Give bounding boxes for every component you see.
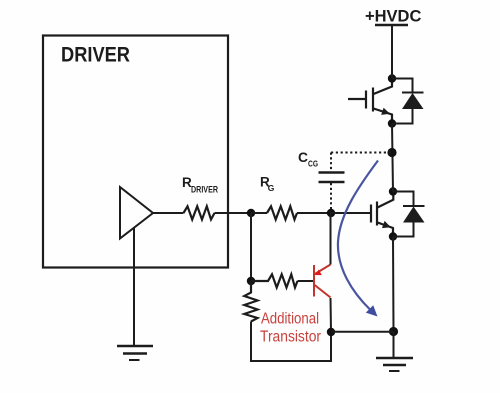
wire gate node B to IGBT Q2 gate xyxy=(331,212,371,214)
wire Q1 emitter to Q2 collector xyxy=(392,124,393,192)
annotation blue current path arrow xyxy=(338,161,378,311)
node Q2 emitter junction xyxy=(389,232,397,240)
node D emitter rail junction xyxy=(389,327,398,336)
svg-text:Transistor: Transistor xyxy=(260,329,321,346)
wire U1 to driver ground xyxy=(133,228,135,346)
node B gate junction xyxy=(327,209,335,217)
svg-text:CG: CG xyxy=(308,159,318,169)
diode D1 antiparallel upper xyxy=(392,79,424,124)
node Q2 collector junction xyxy=(389,187,397,195)
driver block box xyxy=(43,36,228,268)
resistor RDRIVER xyxy=(184,206,215,219)
wire U1 output to RDRIVER xyxy=(153,212,184,214)
resistor RG xyxy=(267,206,297,219)
transistor Q3 additional PNP (red) xyxy=(314,265,331,298)
resistor R pulldown vertical xyxy=(244,281,257,322)
wire base resistor to Q3 base xyxy=(298,280,314,282)
svg-text:+HVDC: +HVDC xyxy=(365,8,421,26)
svg-text:C: C xyxy=(298,150,308,165)
transistor Q1 upper IGBT xyxy=(348,79,392,124)
wire HVDC to Q1 collector xyxy=(391,25,393,79)
svg-text:Additional: Additional xyxy=(261,311,319,328)
wire Q3 emitter up to node B xyxy=(330,213,332,265)
svg-text:DRIVER: DRIVER xyxy=(191,185,218,195)
wire RG to gate node B xyxy=(297,212,331,214)
op-amp U1 buffer triangle xyxy=(120,187,153,239)
svg-text:G: G xyxy=(268,183,275,193)
capacitor CCG dotted lead top xyxy=(330,153,332,173)
node C phase midpoint junction xyxy=(387,148,396,157)
wire node F to node D xyxy=(331,331,394,333)
capacitor CCG dotted lead bottom to node B xyxy=(330,183,332,213)
node E junction xyxy=(247,277,255,285)
wire node A to RG xyxy=(251,212,267,214)
transistor Q2 lower IGBT xyxy=(371,192,393,237)
svg-text:DRIVER: DRIVER xyxy=(61,43,130,67)
wire RDRIVER to node A xyxy=(215,212,252,214)
resistor R base (to Q3) xyxy=(251,274,298,287)
Q3 emitter arrow (red) xyxy=(315,270,322,276)
ground symbol right xyxy=(376,358,413,371)
wire pulldown resistor to bottom rail xyxy=(251,322,331,362)
wire node A down to node E xyxy=(250,213,252,281)
wire node D to ground xyxy=(393,332,395,358)
diode D2 antiparallel lower xyxy=(393,192,425,237)
Q1 emitter arrow xyxy=(381,108,390,115)
node A junction xyxy=(247,209,255,217)
wire Q2 emitter down to node D xyxy=(392,237,395,332)
wire Q3 collector down to node F xyxy=(330,298,333,332)
+HVDC supply rail bar xyxy=(375,24,408,26)
capacitor CCG plates xyxy=(319,171,345,174)
node F junction xyxy=(327,328,335,336)
capacitor CCG dotted lead to node C xyxy=(331,152,392,154)
ground symbol driver xyxy=(117,346,153,360)
Q2 emitter arrow xyxy=(382,221,391,228)
node Q1 collector junction xyxy=(388,74,396,82)
node Q1 emitter junction xyxy=(388,119,396,127)
